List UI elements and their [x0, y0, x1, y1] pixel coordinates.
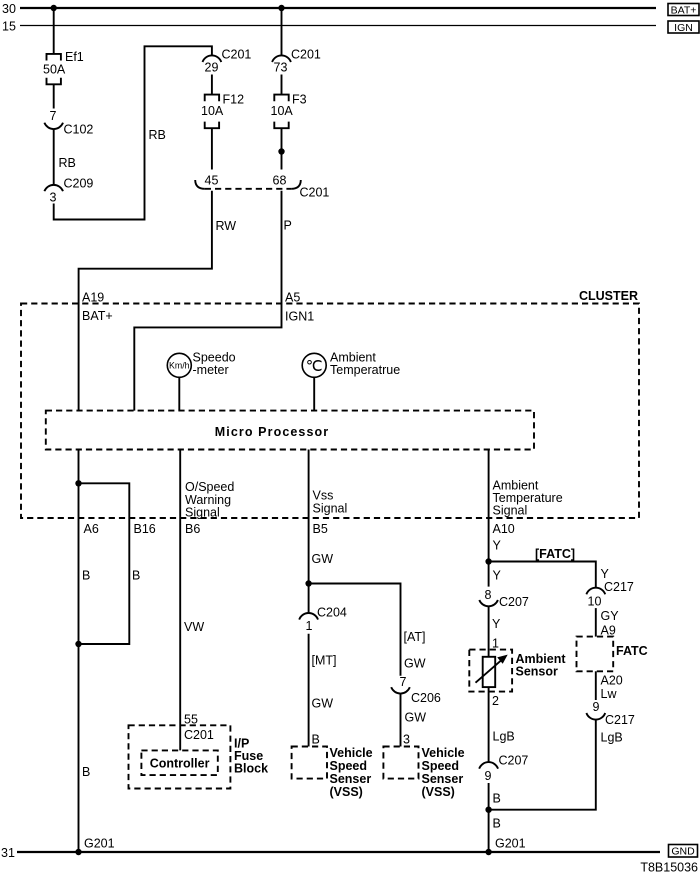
bus 15 wire [20, 25, 656, 27]
svg-text:Vehicle: Vehicle [330, 746, 373, 760]
svg-text:LgB: LgB [493, 730, 515, 744]
svg-text:C204: C204 [317, 606, 347, 620]
wire C209 down right up to C201 pin 29 (RB) [54, 46, 212, 219]
fuse Ef1 50A [47, 54, 61, 84]
wire FATC branch to C217 pin 10 [489, 562, 596, 588]
svg-text:A10: A10 [493, 522, 515, 536]
wire FATC box to C217 pin 9 [595, 671, 597, 700]
svg-text:7: 7 [400, 675, 407, 689]
svg-text:B: B [82, 569, 90, 583]
svg-text:[FATC]: [FATC] [535, 547, 575, 561]
wire B16 loop [79, 483, 130, 644]
svg-text:Temperatrue: Temperatrue [330, 363, 400, 377]
svg-text:B: B [82, 765, 90, 779]
svg-text:10A: 10A [201, 104, 224, 118]
svg-text:℃: ℃ [306, 358, 323, 375]
IGN terminal box [668, 21, 699, 34]
svg-text:3: 3 [50, 191, 57, 205]
connector C217 pin 10 labels [588, 580, 634, 609]
svg-text:A9: A9 [601, 624, 616, 638]
connector C201 pin 29 labels [205, 48, 252, 75]
svg-text:CLUSTER: CLUSTER [579, 289, 638, 303]
svg-text:GW: GW [405, 711, 427, 725]
connector C201 45/68 labels [205, 174, 330, 200]
connector C201 pin 73 arc [272, 55, 291, 62]
svg-text:BAT+: BAT+ [671, 4, 697, 16]
svg-text:B6: B6 [185, 522, 200, 536]
svg-text:50A: 50A [43, 63, 66, 77]
junction on bus 30 at Ef1 column [51, 5, 57, 11]
svg-text:Sensor: Sensor [516, 665, 559, 679]
connector C201 45/68 dashed body [195, 180, 301, 189]
svg-text:Micro Processor: Micro Processor [215, 425, 329, 439]
svg-text:B5: B5 [313, 522, 328, 536]
connector C207 pin 8 arc [479, 600, 498, 606]
svg-text:GND: GND [671, 846, 695, 858]
svg-text:15: 15 [2, 20, 16, 34]
ambient sensor dashed box [469, 650, 512, 692]
ambient sensor name label [516, 652, 567, 679]
svg-text:73: 73 [274, 61, 288, 75]
svg-text:LgB: LgB [601, 731, 623, 745]
svg-text:Ef1: Ef1 [65, 50, 84, 64]
svg-text:8: 8 [485, 588, 492, 602]
svg-text:F12: F12 [223, 93, 245, 107]
svg-text:FATC: FATC [616, 644, 648, 658]
signal name Vss Signal [313, 489, 348, 516]
svg-text:B: B [493, 792, 501, 806]
wire fuse F3 to C201 pin 68 [281, 128, 283, 169]
wire C207-9 to ground G201 [488, 783, 490, 852]
svg-text:55: 55 [184, 713, 198, 727]
signal name O/Speed Warning Signal [185, 480, 234, 520]
connector C201 pin 73 labels [274, 48, 321, 75]
wire C217-9 to FATC return junction [489, 719, 596, 809]
svg-text:A19: A19 [82, 291, 104, 305]
wire fuse F12 to C201 pin 45 [211, 128, 213, 169]
junction A6/B16 bottom [75, 641, 81, 647]
svg-text:Km/h: Km/h [169, 361, 190, 371]
fuse F12 labels [201, 93, 244, 119]
connector C217 pin 10 arc [586, 588, 605, 595]
svg-text:C217: C217 [604, 580, 634, 594]
wire fuse Ef1 to connector C102 [53, 84, 55, 108]
svg-text:C201: C201 [291, 48, 321, 62]
svg-text:Block: Block [234, 762, 268, 776]
svg-text:GW: GW [404, 657, 426, 671]
svg-text:C102: C102 [64, 123, 94, 137]
svg-text:10A: 10A [271, 104, 294, 118]
svg-text:C201: C201 [300, 186, 330, 200]
wire C206 to VSS AT [400, 694, 402, 747]
ambient sensor arrow [476, 655, 508, 683]
VSS AT dashed box [383, 747, 418, 779]
svg-text:C201: C201 [222, 48, 252, 62]
connector C209 pin 3 arc [44, 185, 63, 191]
wire C201-73 to fuse F3 [281, 75, 283, 95]
connector C201 pin 29 arc [203, 55, 222, 62]
micro processor U1 dashed box [46, 411, 534, 450]
junction on bus 31 left [75, 849, 81, 855]
svg-text:B: B [312, 733, 320, 747]
svg-text:9: 9 [485, 769, 492, 783]
svg-text:C206: C206 [411, 691, 441, 705]
connector C204 pin 1 arc [299, 613, 318, 620]
connector C206 pin 7 arc [391, 687, 410, 693]
svg-text:C201: C201 [184, 728, 214, 742]
I/P fuse block label [234, 737, 268, 776]
svg-text:3: 3 [403, 733, 410, 747]
wire A6 micro processor to ground G201 [78, 450, 80, 853]
controller dashed box [141, 750, 217, 775]
svg-text:GW: GW [312, 697, 334, 711]
fuse F3 labels [271, 93, 307, 119]
signal name Ambient Temperature Signal [493, 479, 563, 518]
svg-text:31: 31 [1, 846, 15, 860]
svg-text:1: 1 [492, 637, 499, 651]
svg-text:G201: G201 [84, 837, 115, 851]
svg-text:Senser: Senser [422, 772, 464, 786]
svg-text:1: 1 [306, 619, 313, 633]
connector C207 pin 8 labels [485, 588, 529, 609]
svg-text:(VSS): (VSS) [422, 785, 455, 799]
svg-text:A6: A6 [84, 522, 99, 536]
wire ambient sensor to C207 pin 9 [488, 687, 490, 762]
svg-text:IGN1: IGN1 [285, 310, 314, 324]
svg-text:A20: A20 [601, 674, 623, 688]
wire C201-68 down P to IGN1 [134, 191, 281, 411]
svg-text:C217: C217 [605, 713, 635, 727]
junction on bus 31 right [485, 849, 491, 855]
svg-text:Vss: Vss [313, 489, 334, 503]
svg-text:P: P [284, 219, 292, 233]
fuse F12 10A [205, 95, 219, 129]
ambient temperature gauge [302, 351, 400, 378]
wire Vss branch to AT column [309, 584, 401, 676]
wire B6 micro processor to controller [179, 450, 181, 751]
wire B5 micro processor to C204 [308, 450, 310, 613]
wire C207-8 to ambient sensor [488, 606, 490, 657]
svg-text:Y: Y [493, 569, 502, 583]
FATC dashed box [577, 637, 614, 672]
connector C204 labels [306, 606, 347, 634]
svg-text:B: B [132, 569, 140, 583]
svg-text:O/Speed: O/Speed [185, 480, 234, 494]
svg-text:GY: GY [601, 609, 620, 623]
svg-text:C207: C207 [499, 595, 529, 609]
VSS MT name label [330, 746, 373, 799]
svg-text:B16: B16 [134, 522, 156, 536]
svg-text:[AT]: [AT] [404, 630, 426, 644]
svg-text:Y: Y [492, 617, 501, 631]
wire speedometer to micro processor [178, 377, 180, 410]
svg-text:Signal: Signal [185, 506, 220, 520]
junction on bus 30 at F3 column [278, 5, 284, 11]
wire C201-29 to fuse F12 [211, 75, 213, 95]
svg-text:Y: Y [601, 567, 610, 581]
wire C217-10 to FATC box [595, 608, 597, 637]
svg-text:VW: VW [184, 620, 204, 634]
wire bus30 to fuse Ef1 [53, 8, 55, 54]
VSS MT dashed box [292, 747, 327, 779]
svg-text:68: 68 [273, 174, 287, 188]
junction FATC return [485, 807, 491, 813]
svg-text:7: 7 [50, 109, 57, 123]
I/P fuse block dashed box [129, 725, 231, 788]
svg-text:RW: RW [216, 219, 237, 233]
svg-text:C207: C207 [499, 754, 529, 768]
connector C102 labels [50, 109, 94, 137]
svg-text:Speed: Speed [330, 759, 368, 773]
bus 31 wire [17, 851, 660, 853]
svg-text:30: 30 [2, 2, 16, 16]
svg-text:10: 10 [588, 595, 602, 609]
svg-text:Speed: Speed [422, 759, 460, 773]
svg-text:C209: C209 [64, 177, 94, 191]
wire bus30 to C201 pin 73 [281, 8, 283, 55]
svg-text:RB: RB [149, 128, 166, 142]
wire C204 to VSS MT [308, 634, 310, 747]
svg-text:9: 9 [593, 700, 600, 714]
svg-text:GW: GW [312, 552, 334, 566]
svg-text:Signal: Signal [493, 504, 528, 518]
svg-text:29: 29 [205, 61, 219, 75]
connector C207 pin 9 arc [479, 762, 498, 769]
connector C217 pin 9 labels [593, 700, 635, 727]
junction A6/B16 top [75, 480, 81, 486]
connector C209 labels [50, 177, 94, 205]
svg-text:Y: Y [493, 539, 502, 553]
svg-text:45: 45 [205, 174, 219, 188]
svg-text:A5: A5 [285, 291, 300, 305]
svg-text:F3: F3 [292, 93, 307, 107]
GND terminal box [669, 845, 698, 858]
svg-text:RB: RB [59, 156, 76, 170]
speedometer gauge [167, 351, 235, 378]
wire thermometer to micro processor [313, 377, 315, 410]
svg-text:BAT+: BAT+ [82, 309, 113, 323]
wire A10 micro processor to C207 pin 8 [488, 450, 490, 587]
svg-text:B: B [493, 817, 501, 831]
bus 30 wire [20, 7, 656, 9]
fuse F3 10A [274, 95, 288, 129]
connector C206 labels [400, 675, 441, 705]
svg-text:Vehicle: Vehicle [422, 746, 465, 760]
svg-text:[MT]: [MT] [312, 654, 337, 668]
ambient sensor thermistor body [483, 657, 496, 687]
svg-text:Signal: Signal [313, 502, 348, 516]
svg-text:G201: G201 [495, 837, 526, 851]
svg-text:2: 2 [492, 694, 499, 708]
junction Vss branch [305, 580, 311, 586]
wire C201-45 down RW to A19 [79, 191, 212, 411]
wire RB C102 to C209 [53, 129, 55, 185]
svg-text:-meter: -meter [193, 363, 229, 377]
connector C102 pin 7 arc [44, 123, 63, 129]
svg-text:(VSS): (VSS) [330, 785, 363, 799]
BAT+ terminal box [668, 4, 699, 17]
svg-text:Lw: Lw [601, 687, 618, 701]
CLUSTER dashed box [21, 289, 639, 518]
VSS AT name label [422, 746, 465, 799]
junction on F3 wire [278, 148, 284, 154]
fuse Ef1 labels [43, 50, 84, 77]
junction FATC branch [485, 558, 491, 564]
svg-text:Controller: Controller [150, 757, 210, 771]
svg-text:Senser: Senser [330, 772, 372, 786]
svg-text:T8B15036: T8B15036 [640, 861, 698, 875]
connector C207 pin 9 labels [485, 754, 529, 784]
svg-text:IGN: IGN [674, 22, 693, 34]
connector C217 pin 9 arc [586, 713, 605, 720]
